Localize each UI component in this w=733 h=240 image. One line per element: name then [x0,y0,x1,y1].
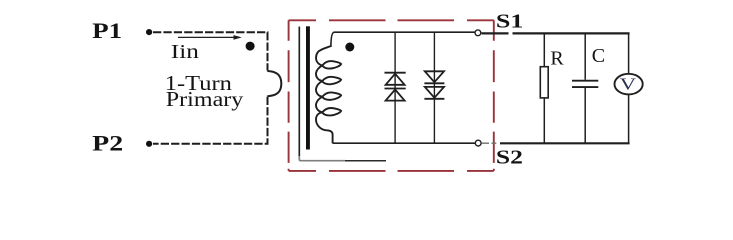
svg-text:Iin: Iin [171,41,199,63]
svg-text:P1: P1 [92,19,122,43]
svg-text:S2: S2 [496,147,523,169]
svg-text:V: V [620,75,637,94]
svg-text:R: R [550,48,564,70]
svg-text:Primary: Primary [166,87,244,111]
svg-text:S1: S1 [496,11,524,33]
svg-text:C: C [592,45,605,67]
svg-text:P2: P2 [92,131,123,155]
